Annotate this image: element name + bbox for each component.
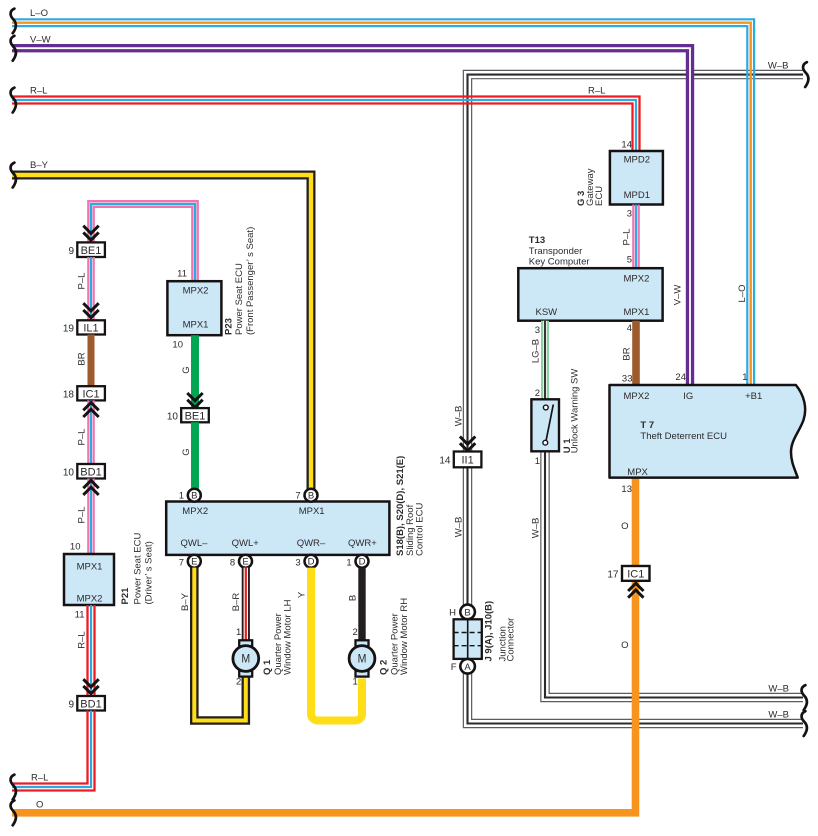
svg-text:1: 1 xyxy=(535,456,540,467)
svg-text:MPX2: MPX2 xyxy=(624,391,650,402)
svg-text:1: 1 xyxy=(236,627,241,638)
svg-text:Q 1: Q 1 xyxy=(262,659,273,675)
ECU P23 (Power Seat ECU Front Passenger's Seat) xyxy=(167,281,221,335)
svg-text:V–W: V–W xyxy=(673,285,684,306)
connector BD1 pin 9 xyxy=(68,696,104,711)
svg-text:B–Y: B–Y xyxy=(180,592,191,611)
svg-text:B–Y: B–Y xyxy=(30,160,49,171)
pin 7 E circle of S18 (QWL-) xyxy=(179,555,201,569)
svg-text:W–B: W–B xyxy=(768,683,789,694)
svg-text:E: E xyxy=(191,557,197,568)
svg-text:W–B: W–B xyxy=(768,709,789,720)
svg-text:24: 24 xyxy=(675,372,686,383)
wire Y (QWR- loop to Q2 pin 1) xyxy=(311,568,362,721)
connector BE1 pin 10 xyxy=(167,408,209,422)
svg-text:Power Seat ECU: Power Seat ECU xyxy=(234,263,245,335)
chevron above BD1 pin 9 xyxy=(83,679,98,693)
svg-text:14: 14 xyxy=(439,455,451,466)
svg-text:BR: BR xyxy=(77,352,88,365)
svg-text:BE1: BE1 xyxy=(81,245,102,257)
svg-text:G: G xyxy=(181,366,192,373)
ECU T7 (Theft Deterrent ECU) xyxy=(610,385,806,478)
svg-text:MPX1: MPX1 xyxy=(183,320,209,331)
svg-text:3: 3 xyxy=(627,209,632,220)
wire P-L (G3 pin 3 to T13 pin 5) xyxy=(633,205,638,269)
ECU G3 (Gateway ECU) xyxy=(610,151,663,205)
svg-text:D: D xyxy=(359,557,366,568)
svg-text:(Front Passenger’ s Seat): (Front Passenger’ s Seat) xyxy=(245,227,256,335)
svg-text:10: 10 xyxy=(70,542,81,553)
svg-text:BD1: BD1 xyxy=(80,698,101,710)
svg-text:MPX2: MPX2 xyxy=(182,506,208,517)
svg-text:3: 3 xyxy=(295,558,300,569)
svg-text:P–L: P–L xyxy=(77,507,88,524)
svg-text:14: 14 xyxy=(621,140,632,151)
pin 1 B circle of S18 xyxy=(179,489,201,502)
svg-text:11: 11 xyxy=(177,269,187,280)
svg-text:17: 17 xyxy=(607,570,619,581)
svg-text:F: F xyxy=(451,662,457,673)
svg-text:QWR–: QWR– xyxy=(297,538,326,549)
svg-text:P23: P23 xyxy=(224,318,235,335)
svg-text:33: 33 xyxy=(622,374,633,385)
svg-text:V–W: V–W xyxy=(30,35,51,46)
wire BR (IL1 to IC1) xyxy=(88,335,95,387)
svg-text:MPX2: MPX2 xyxy=(183,286,209,297)
wire V-W (to T7 IG) xyxy=(12,48,690,385)
svg-text:R–L: R–L xyxy=(31,773,48,784)
svg-text:1: 1 xyxy=(353,676,358,687)
svg-text:E: E xyxy=(242,557,248,568)
svg-text:W–B: W–B xyxy=(454,517,465,538)
svg-text:R–L: R–L xyxy=(588,86,605,97)
svg-text:Power Seat ECU: Power Seat ECU xyxy=(133,533,144,605)
svg-text:1: 1 xyxy=(346,558,351,569)
svg-text:MPX: MPX xyxy=(627,467,648,478)
svg-text:B: B xyxy=(348,595,359,601)
svg-text:7: 7 xyxy=(179,558,184,569)
wire P-L (IC1 to BD1) xyxy=(88,400,93,464)
svg-text:L–O: L–O xyxy=(737,285,748,303)
svg-text:10: 10 xyxy=(167,411,179,422)
svg-text:W–B: W–B xyxy=(768,61,789,72)
svg-text:M: M xyxy=(241,654,250,666)
svg-text:2: 2 xyxy=(236,676,241,687)
svg-text:9: 9 xyxy=(68,699,74,710)
wire P-L (BD1 to P21 pin 10) xyxy=(88,479,93,555)
svg-text:ECU: ECU xyxy=(594,186,605,206)
squiggle R-L (bottom) xyxy=(11,775,16,800)
ECU S18 (Sliding Roof Control ECU) xyxy=(166,502,389,555)
svg-text:Theft Deterrent ECU: Theft Deterrent ECU xyxy=(640,431,727,442)
svg-text:W–B: W–B xyxy=(454,406,465,427)
svg-text:MPD1: MPD1 xyxy=(624,190,650,201)
wire LG-B (KSW to U1 pin 2) xyxy=(541,321,549,400)
chevron above IL1 xyxy=(83,303,98,317)
svg-text:QWL–: QWL– xyxy=(181,538,209,549)
squiggle L-O xyxy=(11,9,16,34)
chevron above BE1 pin 10 xyxy=(187,393,202,407)
connector IL1 pin 19 xyxy=(63,320,105,334)
wire P-L (BE1 pin 9 up, across, down to P23 pin 11) xyxy=(88,201,197,281)
wire G (BE1 pin 10 to S18 pin 1) xyxy=(191,422,199,490)
svg-text:T13: T13 xyxy=(529,235,545,246)
connector IC1 pin 18 xyxy=(63,386,105,400)
svg-text:18: 18 xyxy=(63,389,75,400)
wire R-L (BD1 pin 9 down to left edge) xyxy=(12,711,95,791)
svg-text:2: 2 xyxy=(353,627,358,638)
svg-text:II1: II1 xyxy=(461,454,473,466)
svg-text:BR: BR xyxy=(622,347,633,360)
svg-text:IG: IG xyxy=(683,391,693,402)
svg-text:IL1: IL1 xyxy=(83,322,98,334)
chevron below IC1 (pointing up) xyxy=(83,403,98,417)
svg-text:QWL+: QWL+ xyxy=(232,538,260,549)
svg-text:BE1: BE1 xyxy=(185,410,206,422)
svg-text:7: 7 xyxy=(295,491,300,502)
connector BE1 pin 9 xyxy=(68,242,104,257)
svg-text:IC1: IC1 xyxy=(627,569,644,581)
connector IC1 pin 17 xyxy=(607,566,649,581)
svg-text:(Driver’ s Seat): (Driver’ s Seat) xyxy=(144,541,155,604)
svg-text:9: 9 xyxy=(68,246,74,257)
squiggle B-Y xyxy=(11,163,16,188)
svg-text:B: B xyxy=(464,607,470,618)
svg-text:10: 10 xyxy=(63,467,75,478)
svg-text:D: D xyxy=(308,557,315,568)
svg-text:IC1: IC1 xyxy=(82,388,99,400)
svg-text:Connector: Connector xyxy=(506,618,517,662)
svg-text:13: 13 xyxy=(621,484,632,495)
svg-text:4: 4 xyxy=(627,323,632,334)
svg-text:1: 1 xyxy=(742,372,747,383)
wire W-B (from U1 pin 1 down, then right to bottom-right squiggle) xyxy=(541,452,803,702)
svg-text:Q 2: Q 2 xyxy=(379,660,390,675)
wire B-R (QWL+ to Q1 pin 1) xyxy=(242,568,250,641)
svg-text:11: 11 xyxy=(75,610,85,621)
svg-text:MPD2: MPD2 xyxy=(624,155,650,166)
svg-text:3: 3 xyxy=(535,325,540,336)
svg-text:1: 1 xyxy=(179,491,184,502)
wire R-L (P21 pin 11 to BD1 pin 9) xyxy=(88,605,95,696)
svg-text:KSW: KSW xyxy=(536,307,558,318)
svg-text:Y: Y xyxy=(297,591,308,598)
chevron above BE1 pin 9 xyxy=(83,226,98,240)
ECU T13 (Transponder Key Computer) xyxy=(518,268,662,321)
svg-text:10: 10 xyxy=(172,340,183,351)
svg-text:MPX1: MPX1 xyxy=(624,307,650,318)
switch U1 (Unlock Warning SW) xyxy=(531,399,559,451)
svg-text:B–R: B–R xyxy=(231,593,242,612)
wire W-B (from right squiggle, down through II1 and junction connector, to bottom-right) xyxy=(463,70,803,727)
chevron below IC1 pin 17 (pointing up) xyxy=(628,583,643,597)
pin B circle of junction connector xyxy=(449,605,475,620)
ECU P21 (Power Seat ECU Driver's Seat) xyxy=(64,554,114,605)
svg-text:O: O xyxy=(621,640,628,651)
connector II1 pin 14 xyxy=(439,452,481,468)
svg-text:O: O xyxy=(36,800,43,811)
svg-text:M: M xyxy=(358,654,367,666)
svg-text:19: 19 xyxy=(63,323,75,334)
svg-text:MPX2: MPX2 xyxy=(624,273,650,284)
junction connector J9(A), J10(B) xyxy=(454,619,482,659)
wire B-Y (QWL- loop to Q1 pin 2) xyxy=(194,568,246,721)
wire O (bottom orange run, up to T7 MPX pin 13) xyxy=(12,478,636,813)
squiggle W-B row 1 xyxy=(802,685,807,710)
chevron below BD1 (pointing up) xyxy=(83,481,98,495)
wire B (QWR+ to Q2 pin 2) xyxy=(358,568,365,641)
svg-text:2: 2 xyxy=(535,388,540,399)
svg-text:QWR+: QWR+ xyxy=(348,538,377,549)
chevron above II1 xyxy=(460,437,475,451)
svg-text:Control ECU: Control ECU xyxy=(415,503,426,556)
svg-text:8: 8 xyxy=(230,558,235,569)
svg-text:O: O xyxy=(621,521,628,532)
pin 8 E circle of S18 (QWL+) xyxy=(230,555,252,569)
svg-text:5: 5 xyxy=(627,255,632,266)
svg-text:B: B xyxy=(191,491,197,502)
motor Q1 (Quarter Power Window Motor LH) xyxy=(233,640,259,676)
svg-text:B: B xyxy=(308,491,314,502)
connector BD1 pin 10 xyxy=(63,464,105,479)
svg-text:Unlock Warning SW: Unlock Warning SW xyxy=(570,369,581,454)
svg-text:+B1: +B1 xyxy=(745,391,762,402)
svg-text:A: A xyxy=(464,662,471,673)
pin 3 D circle of S18 (QWR-) xyxy=(295,555,317,569)
pin 7 B circle of S18 xyxy=(295,489,317,502)
wire B-Y (top, to S18 pin 7 B) xyxy=(12,175,311,490)
svg-text:J 9(A), J10(B): J 9(A), J10(B) xyxy=(484,601,495,662)
wire G (P23 pin 10 to BE1 pin 10) xyxy=(191,335,199,408)
svg-text:H: H xyxy=(449,608,456,619)
svg-text:MPX1: MPX1 xyxy=(299,506,325,517)
svg-text:MPX1: MPX1 xyxy=(77,562,103,573)
wire BR (T13 MPX1 to T7 MPX2) xyxy=(632,321,640,385)
svg-text:BD1: BD1 xyxy=(80,466,101,478)
svg-text:Window Motor LH: Window Motor LH xyxy=(283,599,294,675)
svg-text:Window Motor RH: Window Motor RH xyxy=(399,598,410,675)
wire R-L (top, to G3 pin 14) xyxy=(12,97,640,153)
svg-text:W–B: W–B xyxy=(531,518,542,539)
squiggle W-B (top right) xyxy=(803,62,808,87)
svg-text:P–L: P–L xyxy=(77,429,88,446)
svg-text:P–L: P–L xyxy=(77,273,88,290)
svg-text:Transponder: Transponder xyxy=(529,246,583,257)
motor Q2 (Quarter Power Window Motor RH) xyxy=(349,640,375,676)
svg-text:G: G xyxy=(181,448,192,455)
svg-text:T 7: T 7 xyxy=(640,420,654,431)
svg-text:R–L: R–L xyxy=(30,86,47,97)
svg-text:P–L: P–L xyxy=(622,229,633,246)
svg-text:L–O: L–O xyxy=(30,8,48,19)
svg-text:MPX2: MPX2 xyxy=(77,594,103,605)
wire L-O (top, to T7 +B1) xyxy=(12,19,754,385)
squiggle V-W xyxy=(11,36,16,61)
svg-text:P21: P21 xyxy=(120,587,131,605)
squiggle R-L xyxy=(11,88,16,113)
squiggle O xyxy=(11,800,16,825)
pin A circle of junction connector xyxy=(451,659,475,674)
wire P-L (BE1 to IL1) xyxy=(88,257,93,320)
pin 1 D circle of S18 (QWR+) xyxy=(346,555,368,569)
svg-text:LG–B: LG–B xyxy=(531,339,542,363)
squiggle W-B row 2 xyxy=(802,711,807,736)
svg-text:Key Computer: Key Computer xyxy=(529,257,590,268)
svg-text:R–L: R–L xyxy=(77,631,88,648)
